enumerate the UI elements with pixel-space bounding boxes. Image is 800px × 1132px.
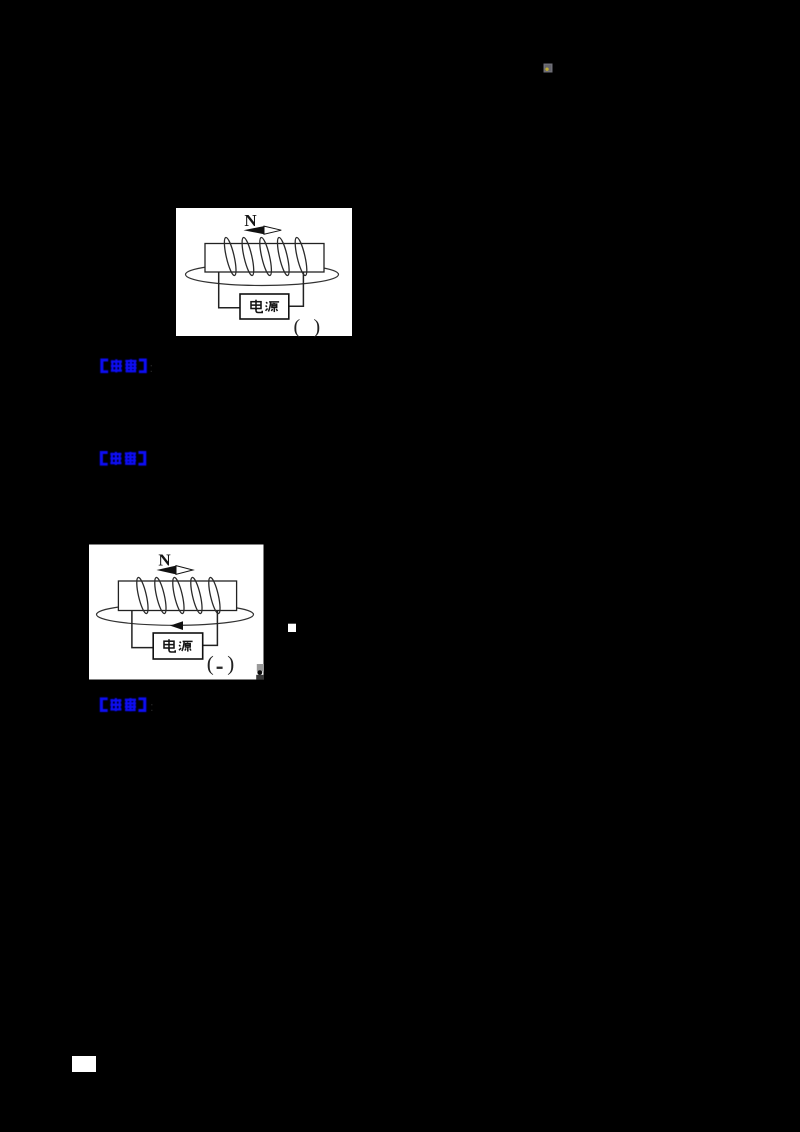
svg-text::: : [150, 699, 154, 714]
svg-text:N: N [244, 211, 257, 230]
svg-text:): ) [314, 316, 321, 338]
svg-text:(: ( [294, 316, 301, 338]
svg-text:N: N [158, 551, 171, 570]
svg-text:(: ( [207, 651, 214, 675]
svg-text::: : [150, 360, 154, 375]
svg-text:): ) [227, 651, 234, 675]
